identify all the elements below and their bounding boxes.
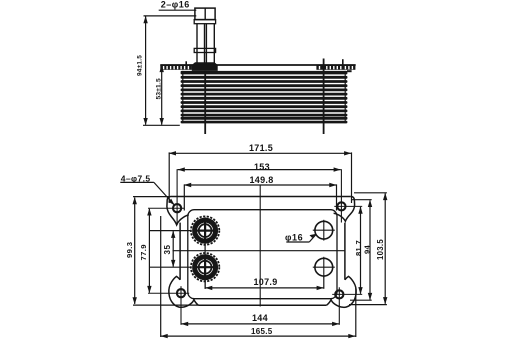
pipe base flare collar xyxy=(192,62,218,71)
inner gasket rounded rectangle xyxy=(188,210,337,299)
note 2-phi16 leader underline xyxy=(159,9,197,11)
flange right comb (crimped edge) xyxy=(316,65,355,70)
body outline left edge xyxy=(179,223,181,280)
svg-text:153: 153 xyxy=(254,162,270,172)
svg-text:149.8: 149.8 xyxy=(250,175,274,185)
dim 94b bottom extension xyxy=(350,299,372,301)
dim 94 top extension line xyxy=(144,15,197,17)
ear hole top-right xyxy=(334,169,362,222)
dim 77.9 line xyxy=(148,209,150,293)
dim 149.8 line xyxy=(184,184,337,186)
dim 153 line xyxy=(178,169,341,171)
pipe bodies xyxy=(197,24,214,64)
leader phi16 elbow xyxy=(309,234,316,242)
leader 4-phi7.5 underline xyxy=(120,181,154,183)
stack right edge line xyxy=(344,71,346,123)
dim 53 line xyxy=(161,65,163,124)
left port centerline through stack xyxy=(204,71,206,134)
svg-text:35: 35 xyxy=(163,244,172,254)
dim 53 arrows xyxy=(160,65,164,126)
pipe upper joint band xyxy=(194,20,215,24)
svg-text:4–φ7.5: 4–φ7.5 xyxy=(121,173,151,183)
lobe top-right xyxy=(334,196,355,221)
body outline top edge xyxy=(172,196,351,198)
port centerline vertical (through both ports to dim line) xyxy=(204,217,206,288)
vertical center line xyxy=(259,185,261,307)
dim 103.5 line xyxy=(384,193,386,303)
dim 171.5 left extension xyxy=(168,152,170,203)
svg-text:94±1.5: 94±1.5 xyxy=(136,55,143,76)
svg-text:103.5: 103.5 xyxy=(376,239,385,260)
right port centerline through stack xyxy=(323,59,325,135)
lobe bottom-right xyxy=(327,276,357,307)
dim 149.8 right extension xyxy=(336,184,338,210)
flange top line xyxy=(160,64,355,66)
flange left comb (crimped edge) xyxy=(160,65,192,70)
svg-text:53±1.5: 53±1.5 xyxy=(155,78,162,99)
svg-text:77.9: 77.9 xyxy=(139,244,148,260)
dim 35 bottom extension xyxy=(149,266,191,268)
horizontal center line through ports xyxy=(173,250,346,252)
pipe top cap xyxy=(195,8,215,20)
dim 165.5 line xyxy=(161,335,356,337)
ear hole top-left xyxy=(148,169,184,225)
dim 171.5 line xyxy=(169,152,351,154)
dim 99.3 top extension xyxy=(133,196,169,198)
svg-text:φ16: φ16 xyxy=(285,233,303,243)
svg-text:2–φ16: 2–φ16 xyxy=(161,0,190,10)
dim 99.3 bottom extension xyxy=(133,304,199,306)
flange right end lip step xyxy=(347,70,352,72)
dim 149.8 left extension xyxy=(183,184,185,210)
port boss upper (serrated) xyxy=(191,216,219,244)
dim 103.5 top extension xyxy=(354,192,387,194)
body outline right edge xyxy=(344,223,346,280)
dim 35 top extension xyxy=(149,230,191,232)
svg-text:107.9: 107.9 xyxy=(254,277,278,287)
svg-text:99.3: 99.3 xyxy=(125,242,134,258)
dim 107.9 line xyxy=(205,287,324,289)
dim 171.5 right extension xyxy=(351,152,353,203)
body outline bottom edge xyxy=(198,304,326,306)
dim 99.3 line xyxy=(134,198,136,305)
leader phi16 underline xyxy=(286,241,309,243)
dim 35 line xyxy=(172,231,174,266)
svg-text:165.5: 165.5 xyxy=(251,327,273,336)
flange tall locator tick right xyxy=(342,59,344,65)
stack left edge line xyxy=(182,71,184,123)
flange tall locator tick left xyxy=(185,61,187,65)
dim 165.5 left extension (from top view flange) xyxy=(160,216,162,337)
dim 107.9 right extension xyxy=(323,276,325,289)
dim 144 line xyxy=(181,323,339,325)
dim 94b top extension xyxy=(352,199,372,201)
svg-text:171.5: 171.5 xyxy=(249,143,273,153)
ear hole bottom-left xyxy=(148,286,189,325)
pipe cap divider xyxy=(204,8,206,20)
stack plates (filled bands) xyxy=(181,71,348,124)
svg-text:144: 144 xyxy=(252,313,268,323)
dim 81.7 line xyxy=(360,207,362,294)
ear hole bottom-right xyxy=(332,287,362,325)
pipe lower joint band xyxy=(194,48,215,52)
lobe bottom-left xyxy=(169,276,199,307)
dim 107.9 left extension (port centerline down) xyxy=(204,276,206,289)
svg-text:94: 94 xyxy=(362,244,371,254)
dim 94b line xyxy=(369,200,371,299)
lobe top-left xyxy=(167,196,189,224)
leader 4-phi7.5 diagonal xyxy=(154,182,175,205)
right hole upper phi16 xyxy=(313,220,335,241)
dim 94 arrows xyxy=(143,16,147,125)
dim 103.5 bottom extension xyxy=(349,304,387,306)
dim 94/53 bottom extension line xyxy=(143,124,180,126)
dim 94 line xyxy=(145,17,147,125)
right hole lower phi16 xyxy=(313,257,335,278)
dim 165.5 right extension xyxy=(355,288,357,337)
port boss lower (serrated) xyxy=(191,253,219,281)
